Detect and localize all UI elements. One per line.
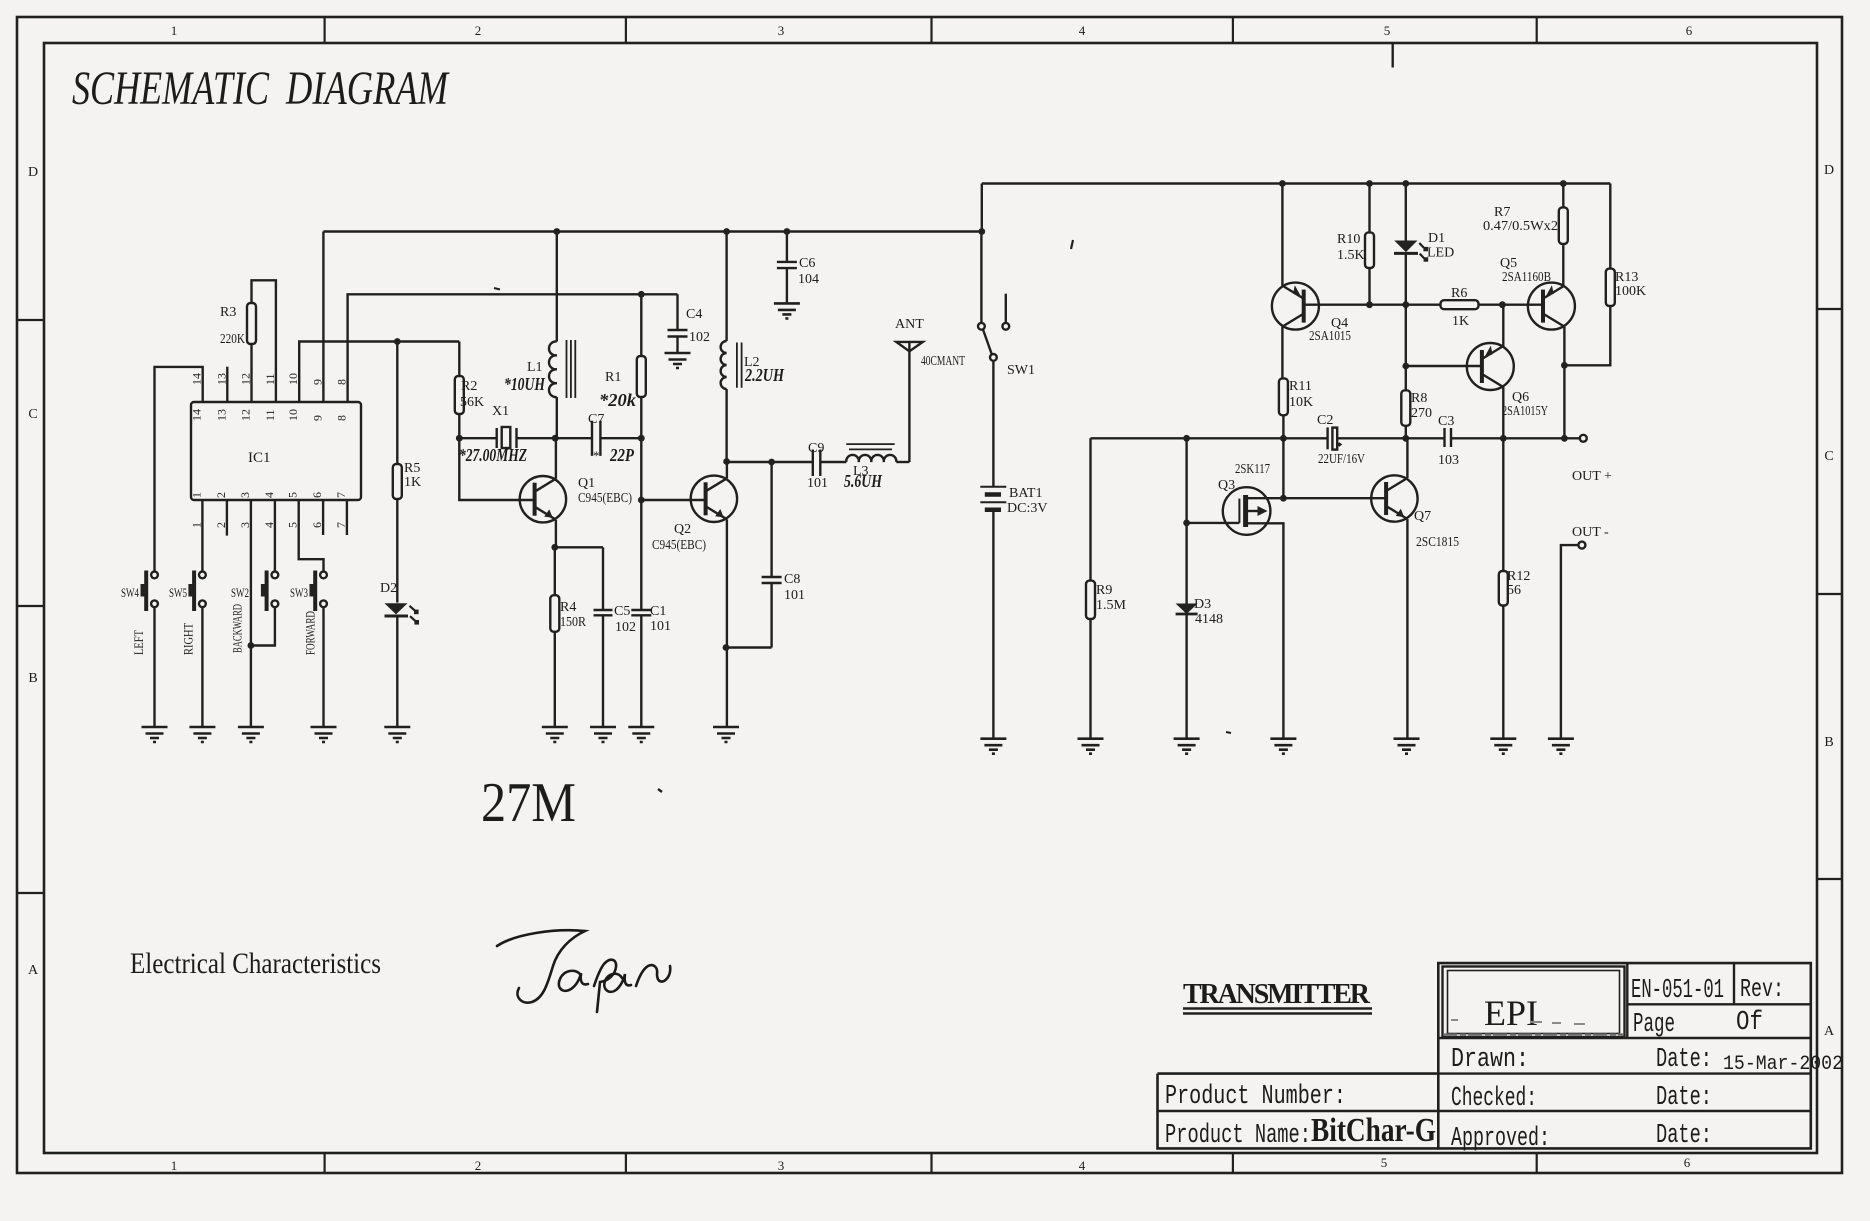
ground (OUT-) <box>1548 739 1574 754</box>
svg-text:3: 3 <box>778 23 785 38</box>
ground (pin3 net) <box>238 727 264 742</box>
ground (SW5) <box>189 727 215 742</box>
wire Q6 emitter up <box>1502 305 1504 347</box>
svg-text:4: 4 <box>262 492 276 498</box>
wire down to R8 <box>1405 366 1407 390</box>
resistor R2 <box>455 376 484 414</box>
wire C3 to OUT+ <box>1451 437 1580 439</box>
svg-text:4: 4 <box>1079 1158 1086 1173</box>
svg-text:DC:3V: DC:3V <box>1007 501 1047 516</box>
svg-text:SCHEMATIC: SCHEMATIC <box>72 62 270 115</box>
LED D2 <box>380 581 419 625</box>
wire R10 bottom <box>1368 268 1370 305</box>
wire C7 node down to C1 <box>640 438 642 610</box>
wire R5 to D2 <box>396 499 398 603</box>
terminal OUT- <box>1561 525 1609 739</box>
wire SW5 to ground <box>201 607 203 727</box>
svg-text:*27.00MHZ: *27.00MHZ <box>459 445 527 465</box>
svg-text:10K: 10K <box>1289 395 1313 410</box>
ground (Q3 source) <box>1270 739 1296 754</box>
svg-text:104: 104 <box>798 272 819 287</box>
svg-text:C1: C1 <box>650 604 666 619</box>
svg-text:Approved:: Approved: <box>1451 1124 1550 1154</box>
svg-text:150R: 150R <box>560 615 587 630</box>
junction pin3 to SW2 jog <box>248 642 255 649</box>
wire Q1 emitter node to R4 <box>554 547 556 595</box>
wire Q7 base lead <box>1283 497 1386 499</box>
wire R10 top <box>1368 184 1370 233</box>
svg-text:1.5K: 1.5K <box>1337 248 1365 263</box>
wire SW4 to ground <box>153 607 155 727</box>
IC U1 body IC1 <box>191 402 361 500</box>
wire L1 top <box>556 232 558 342</box>
svg-text:C8: C8 <box>784 572 800 587</box>
svg-text:R10: R10 <box>1337 232 1360 247</box>
svg-text:Date:: Date: <box>1656 1045 1712 1075</box>
wire R1 bottom <box>640 397 642 438</box>
svg-text:13: 13 <box>214 409 228 421</box>
ground (Q7) <box>1394 739 1420 754</box>
svg-text:ANT: ANT <box>895 317 924 332</box>
svg-text:Q5: Q5 <box>1500 256 1517 271</box>
border row letters right <box>1824 163 1835 1039</box>
junction Q2 base node <box>638 497 645 504</box>
svg-text:2.2UH: 2.2UH <box>744 365 785 385</box>
wire R11 to C2 line <box>1282 415 1284 438</box>
Q7 labels <box>1414 509 1459 550</box>
junction Q2 emitter node <box>723 644 730 651</box>
wire R12 to ground <box>1502 606 1504 739</box>
wire D1 node down to Q6 base junction <box>1405 305 1407 366</box>
svg-text:102: 102 <box>615 620 636 635</box>
inductor L3 <box>844 444 896 491</box>
ground (BAT1) <box>980 739 1006 754</box>
wire Q2 base lead <box>641 499 705 501</box>
junction R1 rail junction <box>638 291 645 298</box>
resistor R3 <box>220 303 256 347</box>
svg-text:C4: C4 <box>686 307 702 322</box>
svg-text:LEFT: LEFT <box>131 630 146 655</box>
svg-text:Q7: Q7 <box>1414 509 1431 524</box>
svg-text:Q6: Q6 <box>1512 390 1529 405</box>
svg-text:C5: C5 <box>614 604 630 619</box>
svg-text:OUT +: OUT + <box>1572 469 1612 484</box>
svg-text:Of: Of <box>1736 1008 1763 1038</box>
svg-text:102: 102 <box>689 330 710 345</box>
svg-text:22UF/16V: 22UF/16V <box>1318 452 1365 467</box>
svg-text:EN-051-01: EN-051-01 <box>1631 976 1724 1006</box>
svg-text:15-Mar-2002: 15-Mar-2002 <box>1723 1053 1843 1076</box>
svg-text:12: 12 <box>239 409 253 421</box>
junction R10 base junction <box>1366 301 1373 308</box>
wire D1 to base line <box>1405 253 1407 304</box>
Q6 labels <box>1502 390 1548 419</box>
label Product Name BitChar-G <box>1165 1112 1436 1151</box>
wire IC1 pin 6 stub <box>322 500 324 535</box>
svg-text:R5: R5 <box>404 461 420 476</box>
svg-text:2SK117: 2SK117 <box>1235 462 1270 477</box>
svg-text:C2: C2 <box>1317 413 1333 428</box>
svg-text:A: A <box>1824 1024 1835 1039</box>
border column ticks bottom <box>325 1153 1537 1173</box>
svg-text:SW2: SW2 <box>231 585 249 600</box>
capacitor C9 <box>807 441 846 491</box>
resistor R5 <box>393 461 421 499</box>
wire IC1 pin 10 to R2 <box>299 342 459 403</box>
handwritten Japan signature <box>497 930 670 1012</box>
svg-text:14: 14 <box>190 409 204 421</box>
svg-text:5: 5 <box>286 492 300 498</box>
svg-text:5: 5 <box>1384 23 1391 38</box>
label Checked Date <box>1451 1083 1712 1114</box>
wire Q7 collector <box>1406 438 1408 478</box>
resistor R4 <box>550 595 576 632</box>
junction C6 rail junction <box>784 228 791 235</box>
border column numbers top <box>171 23 1693 38</box>
border column numbers bottom <box>171 1155 1691 1173</box>
svg-text:Checked:: Checked: <box>1451 1084 1537 1114</box>
LED D1 <box>1394 184 1454 262</box>
wire Q4 collector to R11 <box>1281 327 1283 379</box>
junction Q1 emitter node <box>551 544 558 551</box>
svg-text:SW3: SW3 <box>290 585 308 600</box>
svg-text:BitChar-G: BitChar-G <box>1311 1112 1436 1149</box>
svg-text:SW1: SW1 <box>1007 363 1035 378</box>
antenna ANT <box>895 317 965 462</box>
transistor Q2 <box>691 476 737 522</box>
wire top rail right section <box>982 182 1611 184</box>
wire C2 to C3 <box>1337 437 1444 439</box>
inductor L1 <box>504 340 575 398</box>
wire L2 top <box>725 232 727 342</box>
svg-text:56K: 56K <box>460 395 484 410</box>
wire IC1 pin 9 to top rail <box>322 232 324 403</box>
diode D3 <box>1176 597 1223 627</box>
capacitor C3 <box>1438 414 1459 468</box>
wire C5 to ground <box>602 615 604 727</box>
Q1 labels <box>578 476 632 506</box>
svg-text:40CMANT: 40CMANT <box>921 354 965 369</box>
inductor L2 <box>721 341 786 389</box>
wire R7 top <box>1562 184 1564 208</box>
svg-text:R12: R12 <box>1507 569 1530 584</box>
capacitor C4 <box>668 294 711 353</box>
wire D3 to ground <box>1185 614 1187 739</box>
svg-text:Q2: Q2 <box>674 522 691 537</box>
wire IC1 pin 2 stub <box>226 500 228 536</box>
svg-text:*: * <box>593 448 600 463</box>
wire C1 to ground <box>640 615 642 727</box>
transistor Q5 <box>1528 283 1575 330</box>
IC1 pin numbers top inside <box>190 409 349 421</box>
resistor R6 <box>1441 286 1479 329</box>
transistor Q6 <box>1467 343 1514 390</box>
junction R8 bottom junction <box>1402 435 1409 442</box>
resistor R11 <box>1279 378 1313 415</box>
svg-text:LED: LED <box>1427 246 1454 261</box>
svg-text:C: C <box>1824 449 1833 464</box>
svg-text:270: 270 <box>1411 406 1432 421</box>
svg-text:1: 1 <box>171 1158 178 1173</box>
wire Q6 collector down <box>1502 387 1504 438</box>
wire IC1 pin 13 stub <box>226 367 228 402</box>
title block horizontal dividers <box>1158 1004 1811 1111</box>
ground (D2) <box>384 727 410 742</box>
svg-text:R2: R2 <box>461 379 477 394</box>
ground (SW4) <box>142 727 168 742</box>
junction D3 gate junction <box>1183 520 1190 527</box>
wire Q1 emitter to node <box>555 520 557 548</box>
svg-text:R4: R4 <box>560 600 576 615</box>
resistor R8 <box>1401 390 1432 426</box>
svg-text:2SC1815: 2SC1815 <box>1416 535 1459 550</box>
label Drawn Date <box>1451 1045 1843 1076</box>
wire IC1 pin 8 rail to C4 <box>348 294 678 402</box>
IC1 pin numbers bottom inside <box>189 492 348 498</box>
wire Q4 emitter to rail <box>1281 184 1283 286</box>
svg-text:C945(EBC): C945(EBC) <box>578 491 632 506</box>
stray pen tick below top border <box>1391 43 1393 68</box>
svg-text:TRANSMITTER: TRANSMITTER <box>1183 979 1371 1010</box>
wire R1 top <box>640 294 642 356</box>
svg-text:C: C <box>28 407 37 422</box>
svg-text:R6: R6 <box>1451 286 1467 301</box>
wire Q4 base line <box>1304 304 1441 306</box>
svg-text:3: 3 <box>238 492 252 498</box>
ground (Q2) <box>713 727 739 742</box>
wire R6 to Q5 base <box>1479 304 1544 306</box>
svg-text:8: 8 <box>335 415 349 421</box>
junction Q4 rail junction <box>1279 180 1286 187</box>
svg-text:R13: R13 <box>1615 270 1638 285</box>
TRANSMITTER underline <box>1183 1009 1372 1014</box>
junction pin10 line to R5 line <box>394 338 401 345</box>
svg-text:0.47/0.5Wx2: 0.47/0.5Wx2 <box>1483 219 1558 234</box>
svg-text:22P: 22P <box>609 445 634 465</box>
wire Q6 base lead <box>1406 365 1482 367</box>
svg-text:6: 6 <box>310 492 324 498</box>
wire IC1 pin 5 to SW3 <box>299 500 324 572</box>
svg-text:C7: C7 <box>588 412 604 427</box>
wire SW2 bottom jog <box>251 607 275 646</box>
svg-text:1K: 1K <box>1452 314 1469 329</box>
wire L2 bottom <box>725 389 727 462</box>
svg-text:4148: 4148 <box>1195 612 1223 627</box>
junction L1 top rail junction <box>553 228 560 235</box>
svg-text:100K: 100K <box>1615 284 1646 299</box>
svg-text:Drawn:: Drawn: <box>1451 1045 1529 1075</box>
wire R9 top corner <box>1089 438 1091 580</box>
svg-text:Electrical Characteristics: Electrical Characteristics <box>130 947 381 980</box>
switch SW1 <box>978 232 1035 379</box>
capacitor C7 <box>555 412 641 465</box>
junction D1 base junction <box>1402 301 1409 308</box>
ground (R12) <box>1490 739 1516 754</box>
ground (SW3) <box>311 727 337 742</box>
wire Q2 emitter down <box>726 519 728 727</box>
wire drain junction up <box>1282 438 1284 498</box>
svg-text:2SA1015Y: 2SA1015Y <box>1502 404 1548 419</box>
wire Q1 collector <box>555 438 557 479</box>
transistor Q4 <box>1272 283 1319 330</box>
junction R11 bottom junction <box>1280 435 1287 442</box>
terminal OUT+ <box>1572 435 1612 484</box>
wire Q2 collector <box>726 462 728 479</box>
svg-text:D3: D3 <box>1194 597 1211 612</box>
svg-text:R1: R1 <box>605 370 621 385</box>
svg-text:*20k: *20k <box>599 390 636 410</box>
svg-text:56: 56 <box>1507 583 1521 598</box>
svg-text:2SA1015: 2SA1015 <box>1309 329 1351 344</box>
wire IC1 pin 1 to SW5 <box>201 500 203 572</box>
wire IC1 pin 3 to ground <box>250 500 252 727</box>
svg-text:Page: Page <box>1633 1010 1675 1040</box>
stray dot <box>658 789 662 792</box>
svg-text:6: 6 <box>1686 23 1693 38</box>
svg-text:X1: X1 <box>492 404 509 419</box>
svg-text:9: 9 <box>310 415 324 421</box>
wire emitter node to C8 <box>726 646 772 648</box>
svg-text:5.6UH: 5.6UH <box>844 471 883 491</box>
wire IC1 pin 7 stub <box>346 500 348 535</box>
ground (D3) <box>1174 739 1200 754</box>
svg-text:EPI: EPI <box>1484 993 1538 1033</box>
capacitor C2 electrolytic <box>1317 413 1365 467</box>
svg-text:1.5M: 1.5M <box>1096 598 1127 613</box>
capacitor C1 <box>631 604 671 634</box>
svg-text:Q1: Q1 <box>578 476 595 491</box>
wire rail riser <box>981 184 983 232</box>
wire emitter node to C5 <box>555 546 603 548</box>
svg-text:4: 4 <box>1079 23 1086 38</box>
border row ticks right <box>1817 309 1842 879</box>
resistor R7 <box>1494 205 1568 244</box>
svg-text:5: 5 <box>1381 1155 1388 1170</box>
svg-text:11: 11 <box>263 409 277 421</box>
resistor R9 <box>1086 581 1127 619</box>
svg-text:Date:: Date: <box>1656 1121 1712 1151</box>
wire L1 bottom <box>556 397 558 438</box>
junction Q5 collector R13 node <box>1561 362 1568 369</box>
svg-text:R11: R11 <box>1289 379 1312 394</box>
crystal X1 <box>459 404 555 448</box>
border column ticks top <box>325 17 1537 43</box>
wire R2 to X1 line and Q1 base <box>459 414 534 500</box>
ground (R4) <box>542 727 568 742</box>
capacitor C6 <box>777 232 819 304</box>
svg-text:101: 101 <box>807 476 828 491</box>
junction D3 top junction <box>1183 435 1190 442</box>
junction L2 rail junction <box>723 228 730 235</box>
resistor R12 <box>1499 569 1531 606</box>
svg-text:C3: C3 <box>1438 414 1454 429</box>
svg-text:B: B <box>1824 735 1833 750</box>
svg-text:1K: 1K <box>404 475 421 490</box>
title SCHEMATIC DIAGRAM <box>72 62 450 115</box>
svg-text:C6: C6 <box>799 256 815 271</box>
svg-text:2: 2 <box>214 492 228 498</box>
switch SW2 <box>230 571 279 654</box>
svg-text:R3: R3 <box>220 305 236 320</box>
wire C5 top <box>602 547 604 610</box>
svg-text:*10UH: *10UH <box>504 374 546 394</box>
ground (R9) <box>1078 739 1104 754</box>
junction Q3 drain junction <box>1280 495 1287 502</box>
wire IC1 pin 4 to SW2 <box>274 500 276 572</box>
junction R10 rail junction <box>1366 180 1373 187</box>
IC1 pin numbers bottom outside <box>189 522 348 528</box>
svg-text:2SA1160B: 2SA1160B <box>1502 270 1551 285</box>
wire R2 top <box>458 342 460 377</box>
svg-text:220K: 220K <box>220 332 245 347</box>
svg-text:27M: 27M <box>481 772 576 834</box>
FET Q3 2SK117 <box>1187 462 1284 739</box>
ground (C6) <box>774 303 800 318</box>
wire R13 bottom <box>1564 306 1610 365</box>
wire R9 to ground <box>1089 619 1091 739</box>
junction Q5 collector out node <box>1561 435 1568 442</box>
wire SW3 to ground <box>322 607 324 727</box>
svg-text:Date:: Date: <box>1656 1083 1712 1113</box>
wire D3 vertical top <box>1185 438 1187 603</box>
svg-text:3: 3 <box>778 1158 785 1173</box>
svg-text:R8: R8 <box>1411 391 1427 406</box>
svg-text:C9: C9 <box>808 441 824 456</box>
svg-text:A: A <box>28 963 39 978</box>
wire IC1 pin 14 to SW4 <box>155 367 203 572</box>
title block product box <box>1158 1074 1439 1149</box>
wire Q5 collector down <box>1563 327 1565 439</box>
svg-text:2: 2 <box>475 23 482 38</box>
ground (C1) <box>628 727 654 742</box>
junction Q6 collector node <box>1500 435 1507 442</box>
svg-text:SW4: SW4 <box>121 585 139 600</box>
svg-text:DIAGRAM: DIAGRAM <box>285 62 450 115</box>
svg-text:1: 1 <box>171 23 178 38</box>
wire R4 to ground <box>554 632 556 727</box>
junction R6-Q5-Q6 junction <box>1499 301 1506 308</box>
wire R8 to C2 line <box>1405 426 1407 439</box>
svg-text:Rev:: Rev: <box>1740 974 1784 1004</box>
EPI logo box <box>1443 967 1625 1038</box>
label Page Of <box>1633 1008 1763 1040</box>
svg-text:D2: D2 <box>380 581 397 596</box>
wire L3 to antenna <box>896 461 909 463</box>
Q2 labels <box>652 522 706 553</box>
svg-text:Product Number:: Product Number: <box>1165 1082 1346 1112</box>
resistor R13 <box>1606 269 1646 306</box>
svg-text:SW5: SW5 <box>169 585 187 600</box>
svg-text:C945(EBC): C945(EBC) <box>652 538 706 553</box>
wire Q7 emitter to ground <box>1406 519 1408 739</box>
title block vertical dividers <box>1627 963 1734 1038</box>
svg-text:103: 103 <box>1438 453 1459 468</box>
switch SW3 <box>290 571 327 656</box>
svg-text:101: 101 <box>784 588 805 603</box>
svg-text:10: 10 <box>286 409 300 421</box>
junction R2-X1 junction <box>456 435 463 442</box>
wire rail corner to R13 <box>1609 184 1611 269</box>
ground (C4) <box>665 353 691 368</box>
junction Q6 base junction <box>1402 363 1409 370</box>
svg-text:BACKWARD: BACKWARD <box>230 604 245 653</box>
junction rail riser junction <box>978 228 985 235</box>
wire top rail left section <box>323 230 981 232</box>
wire R7 to Q5 emitter <box>1562 244 1564 286</box>
junction R7 rail junction <box>1560 180 1567 187</box>
border row letters left <box>28 165 39 978</box>
resistor R1 <box>605 356 646 397</box>
